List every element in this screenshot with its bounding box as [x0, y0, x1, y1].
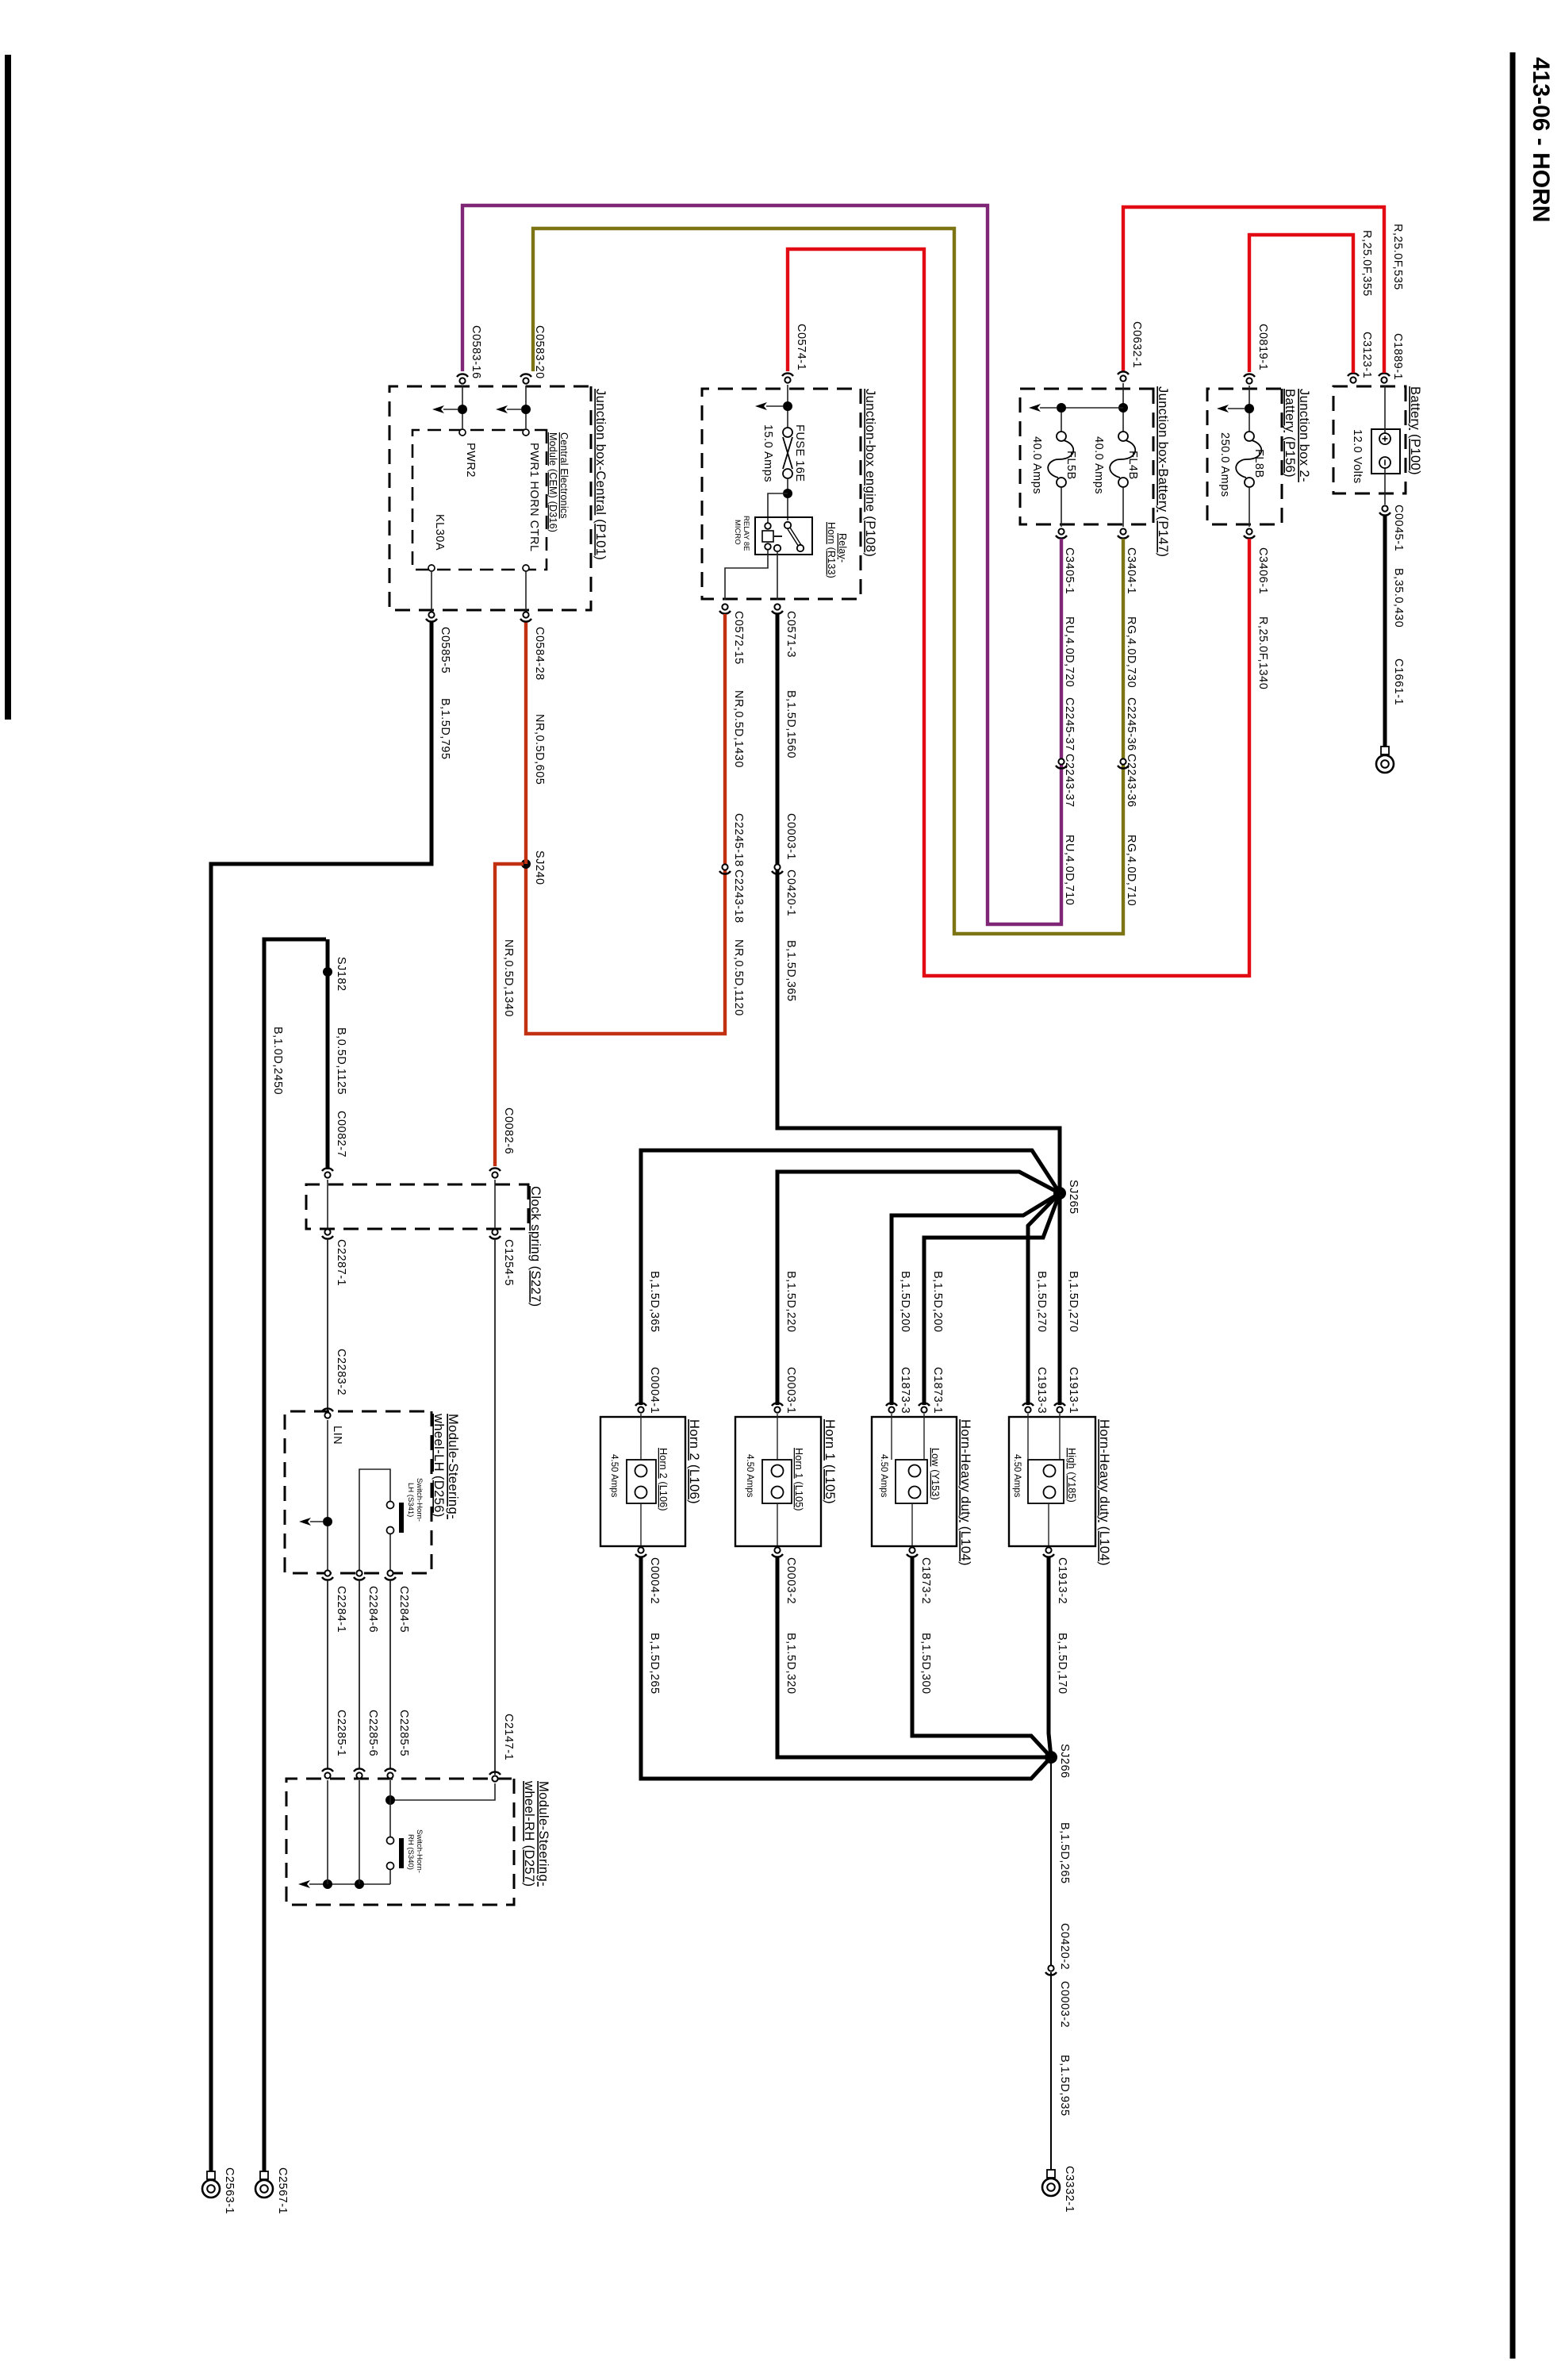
svg-text:C0585-5: C0585-5	[439, 627, 451, 674]
fuse FUSE 16E	[761, 424, 806, 520]
wire R,25.0F,1340 to relay feed	[788, 249, 1269, 976]
svg-text:Horn (R133): Horn (R133)	[826, 522, 837, 578]
connector C3405-1	[1056, 528, 1076, 594]
connector C2147-1	[489, 1714, 515, 1782]
wire B,1.5D,220 SJ265 to C0003-1	[777, 1172, 1060, 1405]
svg-text:Horn 1 (L105): Horn 1 (L105)	[793, 1448, 804, 1511]
horn 2 L106 box	[600, 1414, 701, 1546]
svg-text:C2563-1: C2563-1	[223, 2167, 236, 2214]
fusible link FL5B	[1030, 432, 1077, 527]
connector C3406-1	[1244, 528, 1269, 594]
svg-text:B,1.5D,365: B,1.5D,365	[784, 940, 797, 1002]
connector C2284-1	[322, 1570, 347, 1633]
relay coil output to C0572-15	[725, 550, 768, 600]
svg-text:C0583-16: C0583-16	[470, 325, 482, 379]
connector C1873-2	[907, 1547, 932, 1604]
wire R,25.0F,535 (battery feed A)	[1123, 207, 1404, 373]
svg-text:PWR1 HORN CTRL: PWR1 HORN CTRL	[527, 443, 540, 552]
svg-text:C3406-1: C3406-1	[1256, 547, 1269, 594]
svg-text:wheel-RH (D257): wheel-RH (D257)	[522, 1780, 536, 1887]
connector C1254-5	[489, 1229, 515, 1286]
svg-text:4.50 Amps: 4.50 Amps	[1012, 1454, 1022, 1498]
svg-text:4.50 Amps: 4.50 Amps	[879, 1454, 888, 1498]
svg-text:C0571-3: C0571-3	[784, 611, 797, 658]
svg-text:B,1.5D,270: B,1.5D,270	[1067, 1271, 1080, 1333]
svg-text:C0632-1: C0632-1	[1130, 321, 1143, 368]
svg-text:C1913-1: C1913-1	[1067, 1367, 1080, 1414]
splice SJ240	[521, 850, 546, 885]
P101 label	[593, 389, 608, 560]
PWR2 node arrow and pin	[432, 386, 477, 478]
switch-Horn-RH S340	[387, 1829, 424, 1884]
svg-text:SJ240: SJ240	[533, 850, 546, 885]
svg-text:C3405-1: C3405-1	[1063, 547, 1076, 594]
wire B,1.5D,365 SJ265 to C0004-1	[641, 1150, 1060, 1405]
svg-text:C0003-2: C0003-2	[784, 1557, 797, 1604]
svg-text:C1873-2: C1873-2	[919, 1557, 932, 1604]
wire B,1.5D,270 SJ265 to C1913-3	[1028, 1193, 1060, 1405]
D256 label	[432, 1413, 460, 1519]
svg-text:C2287-1: C2287-1	[335, 1239, 347, 1286]
svg-text:Low (Y153): Low (Y153)	[930, 1448, 941, 1500]
svg-text:4.50 Amps: 4.50 Amps	[609, 1454, 619, 1498]
svg-text:LH (S341): LH (S341)	[406, 1483, 415, 1517]
svg-text:C0003-1: C0003-1	[784, 813, 797, 860]
inline connector C2245-37 C2243-37	[1056, 697, 1076, 905]
battery value 12.0 Volts	[1351, 429, 1364, 484]
svg-text:C0584-28: C0584-28	[533, 627, 546, 681]
svg-text:C1873-3: C1873-3	[899, 1367, 911, 1414]
inline connector C2245-36 C2243-36	[1118, 697, 1137, 906]
svg-text:Junction box-Central (P101): Junction box-Central (P101)	[593, 389, 608, 560]
svg-text:FL5B: FL5B	[1064, 451, 1077, 480]
svg-text:Module-Steering-: Module-Steering-	[536, 1781, 550, 1887]
svg-text:PWR2: PWR2	[464, 443, 477, 478]
svg-text:C2245-36: C2245-36	[1125, 697, 1137, 751]
relay-Horn R133	[733, 516, 848, 578]
header rule	[1510, 52, 1516, 2359]
svg-text:B,1.5D,265: B,1.5D,265	[1058, 1822, 1071, 1884]
connector C1913-2	[1043, 1547, 1068, 1604]
PWR1 node arrow and pin	[496, 386, 540, 552]
svg-text:NR,0.5D,605: NR,0.5D,605	[533, 714, 546, 785]
connector C0082-6	[489, 1107, 515, 1178]
ground C1661-1	[1376, 658, 1405, 773]
svg-text:MICRO: MICRO	[733, 520, 742, 545]
svg-text:Switch-Horn-: Switch-Horn-	[415, 1478, 424, 1522]
connector C0003-2 horn1	[772, 1547, 797, 1604]
svg-text:B,1.5D,220: B,1.5D,220	[784, 1271, 797, 1333]
svg-text:Horn 2 (L106): Horn 2 (L106)	[687, 1419, 701, 1504]
P108 label	[863, 389, 877, 557]
wire RU,4.0D,720 purple from FL5B	[462, 205, 1076, 924]
svg-text:C2284-6: C2284-6	[366, 1586, 379, 1633]
wire C2284-5 to C2285-5	[389, 1580, 391, 1769]
svg-text:NR,0.5D,1430: NR,0.5D,1430	[732, 690, 745, 768]
connector C2285-1	[322, 1710, 347, 1779]
wire C2284-6 to C2285-6	[359, 1580, 360, 1769]
battery P100 dashed box	[1333, 386, 1406, 493]
P156 internal node and arrow	[1217, 386, 1254, 432]
connector C0632-1	[1118, 321, 1143, 382]
svg-text:C0082-6: C0082-6	[502, 1107, 515, 1154]
svg-text:Horn-Heavy duty (L104): Horn-Heavy duty (L104)	[1097, 1419, 1111, 1566]
ground C3332-1	[1042, 2166, 1076, 2213]
svg-text:FUSE 16E: FUSE 16E	[793, 424, 806, 482]
svg-text:C3404-1: C3404-1	[1125, 547, 1137, 594]
svg-text:C2245-18: C2245-18	[732, 813, 745, 867]
svg-text:C0004-1: C0004-1	[648, 1367, 661, 1414]
inline connector C0420-2 C0003-2	[1045, 1923, 1071, 2028]
inline connector C0003-1 C0420-1	[772, 813, 797, 916]
svg-text:Battery (P156): Battery (P156)	[1283, 389, 1297, 478]
wire B,1.5D,270 SJ265 to C1913-1	[1058, 1193, 1062, 1405]
relay switch output to C0571-3	[777, 551, 778, 600]
svg-text:C0583-20: C0583-20	[533, 325, 546, 379]
wire B,35.0,430 battery to ground	[1385, 516, 1405, 747]
connector C0004-2 horn2	[635, 1547, 661, 1604]
svg-text:Horn 2 (L106): Horn 2 (L106)	[658, 1448, 669, 1511]
svg-text:B,1.5D,270: B,1.5D,270	[1035, 1271, 1048, 1333]
wire NR,0.5D,605 SJ240 to CEM	[526, 622, 546, 864]
connector C2283-2	[322, 1349, 347, 1418]
connector C0004-1 horn2	[635, 1403, 646, 1412]
svg-text:RU,4.0D,720: RU,4.0D,720	[1063, 616, 1076, 687]
svg-text:C2243-18: C2243-18	[732, 869, 745, 923]
connector C0045-1	[1379, 505, 1405, 551]
junction-box engine P108 dashed box	[702, 389, 861, 599]
KL30A pin to C0585-5	[428, 514, 446, 611]
svg-text:12.0 Volts: 12.0 Volts	[1351, 429, 1364, 484]
svg-text:C1661-1: C1661-1	[1392, 658, 1405, 705]
svg-text:Junction box 2-: Junction box 2-	[1297, 389, 1311, 482]
inline connector C2245-18 C2243-18	[719, 813, 745, 923]
wire NR,0.5D,1430 relay coil to SJ240	[526, 614, 745, 1034]
wire B,1.5D,265 SJ266 output	[1051, 1757, 1071, 1965]
connector C0003-1 horn1	[772, 1403, 783, 1412]
svg-text:B,1.5D,200: B,1.5D,200	[899, 1271, 911, 1333]
svg-text:C1913-3: C1913-3	[1035, 1367, 1048, 1414]
svg-text:4.50 Amps: 4.50 Amps	[745, 1454, 754, 1498]
connector C0585-5	[426, 612, 451, 674]
svg-text:40.0 Amps: 40.0 Amps	[1030, 436, 1043, 494]
svg-text:B,1.5D,200: B,1.5D,200	[931, 1271, 944, 1333]
svg-text:FL8B: FL8B	[1252, 449, 1265, 478]
svg-text:B,1.5D,265: B,1.5D,265	[648, 1633, 661, 1695]
svg-text:C0574-1: C0574-1	[795, 324, 807, 370]
svg-text:NR,0.5D,1340: NR,0.5D,1340	[502, 939, 515, 1017]
svg-text:B,1.5D,170: B,1.5D,170	[1056, 1633, 1068, 1695]
connector C0584-28	[520, 612, 546, 680]
splice SJ266	[1045, 1744, 1071, 1779]
connector C0583-20	[520, 325, 546, 384]
wire C1254-5 to C2147-1	[494, 1239, 496, 1775]
svg-text:B,1.5D,365: B,1.5D,365	[648, 1271, 661, 1333]
wire B,1.5D,795 KL30A to ground	[211, 622, 451, 2171]
wire B,1.0D,2450 ground branch	[264, 939, 326, 2171]
svg-text:Central Electronics: Central Electronics	[558, 432, 570, 519]
connector C3404-1	[1118, 528, 1137, 594]
wire B,1.5D,935 to ground	[1051, 1972, 1071, 2170]
svg-text:Switch-Horn-: Switch-Horn-	[415, 1829, 424, 1873]
connector C2284-6	[354, 1570, 379, 1633]
wire B,1.5D,300 C1873-2 to SJ266	[912, 1557, 1051, 1757]
wire B,1.5D,200 SJ265 to C1873-1	[924, 1193, 1060, 1405]
module-Steering-wheel-LH D256 dashed box	[285, 1411, 432, 1573]
junction box 2-Battery P156 dashed box	[1207, 389, 1282, 524]
D257 ground rail with arrow	[298, 1780, 390, 1889]
svg-text:C1913-2: C1913-2	[1056, 1557, 1068, 1604]
svg-text:NR,0.5D,1120: NR,0.5D,1120	[732, 939, 745, 1016]
wire B,1.5D,320 C0003-2 to SJ266	[777, 1557, 1051, 1757]
switch-Horn-LH S341	[359, 1469, 424, 1570]
svg-text:Junction box-Battery (P147): Junction box-Battery (P147)	[1156, 386, 1170, 557]
svg-text:SJ265: SJ265	[1067, 1180, 1080, 1215]
wire RG,4.0D,730 olive from FL4B	[533, 228, 1137, 934]
P147 internal nodes and arrow	[1029, 383, 1128, 432]
svg-text:Clock spring (S227): Clock spring (S227)	[528, 1186, 543, 1307]
svg-text:R,25.0F,355: R,25.0F,355	[1360, 230, 1373, 297]
ground C2563-1	[202, 2167, 236, 2214]
connector C0583-16	[457, 325, 482, 384]
svg-text:KL30A: KL30A	[433, 514, 446, 551]
svg-text:R,25.0F,1340: R,25.0F,1340	[1256, 616, 1269, 689]
svg-text:B,35.0,430: B,35.0,430	[1392, 568, 1405, 628]
wire B,1.5D,1560 relay to SJ265	[777, 614, 1060, 1188]
P156 label	[1283, 389, 1311, 482]
svg-text:Battery (P100): Battery (P100)	[1408, 386, 1422, 475]
horn-Heavy duty L104 High Y185 box	[1009, 1414, 1111, 1566]
svg-text:C2285-1: C2285-1	[335, 1710, 347, 1756]
battery P100 label	[1408, 386, 1422, 475]
svg-text:Horn 1 (L105): Horn 1 (L105)	[823, 1419, 837, 1504]
svg-text:C0045-1: C0045-1	[1392, 505, 1405, 551]
module-Steering-wheel-RH D257 dashed box	[286, 1779, 514, 1905]
HORN CTRL pin to C0584-28	[523, 565, 529, 611]
connector C1913-1	[1054, 1403, 1065, 1412]
connector C3123-1	[1348, 332, 1373, 383]
svg-text:C2243-36: C2243-36	[1125, 754, 1137, 808]
svg-text:B,1.5D,795: B,1.5D,795	[439, 698, 451, 760]
P108 internal node and arrow	[755, 385, 792, 428]
svg-text:C1873-1: C1873-1	[931, 1367, 944, 1414]
svg-text:C0004-2: C0004-2	[648, 1557, 661, 1604]
svg-text:C0003-1: C0003-1	[784, 1367, 797, 1414]
connector C1873-1	[919, 1403, 930, 1412]
wire B,1.5D,170 C1913-2 to SJ266	[1049, 1557, 1068, 1757]
wire B,1.5D,200 SJ265 to C1873-3	[892, 1193, 1060, 1405]
svg-text:Module-Steering-: Module-Steering-	[446, 1414, 460, 1519]
svg-text:C1889-1: C1889-1	[1391, 333, 1404, 380]
connector C1873-3	[886, 1403, 897, 1412]
svg-text:C1254-5: C1254-5	[502, 1239, 515, 1286]
svg-text:C2243-37: C2243-37	[1063, 754, 1076, 808]
svg-text:15.0 Amps: 15.0 Amps	[761, 424, 774, 482]
svg-text:SJ182: SJ182	[335, 957, 347, 992]
ground C2567-1	[255, 2167, 289, 2214]
connector C0819-1	[1244, 324, 1269, 384]
svg-text:C2245-37: C2245-37	[1063, 697, 1076, 751]
svg-text:RELAY 8E: RELAY 8E	[742, 516, 750, 551]
svg-text:LIN: LIN	[331, 1426, 343, 1445]
junction box-Battery P147 dashed box	[1020, 389, 1153, 524]
clock spring internal wires	[328, 1180, 495, 1228]
svg-text:C2284-5: C2284-5	[397, 1586, 410, 1633]
connector C2285-5	[385, 1710, 410, 1779]
horn-Heavy duty L104 Low Y153 box	[872, 1414, 972, 1566]
svg-text:SJ266: SJ266	[1058, 1744, 1071, 1779]
connector C0082-7	[322, 1111, 347, 1178]
svg-text:40.0 Amps: 40.0 Amps	[1092, 436, 1105, 494]
connector C2285-6	[354, 1710, 379, 1779]
page title 413-06 - HORN	[1528, 57, 1554, 222]
svg-text:RU,4.0D,710: RU,4.0D,710	[1063, 835, 1076, 905]
svg-text:C2284-1: C2284-1	[335, 1586, 347, 1633]
svg-text:Relay-: Relay-	[837, 533, 848, 562]
CEM label	[547, 432, 570, 532]
svg-text:C0572-15: C0572-15	[732, 611, 745, 665]
svg-text:B,1.0D,2450: B,1.0D,2450	[271, 1027, 284, 1095]
svg-text:C3123-1: C3123-1	[1360, 332, 1373, 378]
svg-text:Module (CEM) (D316): Module (CEM) (D316)	[547, 432, 558, 532]
connector C0574-1	[782, 324, 807, 383]
clock spring label	[528, 1186, 543, 1307]
svg-text:C2283-2: C2283-2	[335, 1349, 347, 1395]
footer bar	[5, 55, 11, 720]
wire C2284-1 to C2285-1	[327, 1580, 328, 1769]
wire C2287-1 to C2283-2	[327, 1239, 328, 1411]
svg-text:Horn-Heavy duty (L104): Horn-Heavy duty (L104)	[958, 1419, 972, 1566]
connector C1913-3	[1022, 1403, 1034, 1412]
connector C2284-5	[385, 1570, 410, 1633]
svg-text:FL4B: FL4B	[1126, 451, 1139, 480]
clock spring S227 dashed box	[306, 1184, 528, 1229]
svg-text:High (Y185): High (Y185)	[1066, 1448, 1077, 1503]
svg-text:B,0.5D,1125: B,0.5D,1125	[335, 1027, 347, 1095]
fusible link FL8B	[1218, 432, 1265, 527]
battery symbol B1	[1371, 386, 1400, 505]
svg-text:C0420-2: C0420-2	[1058, 1923, 1071, 1970]
svg-text:B,1.5D,1560: B,1.5D,1560	[784, 690, 797, 758]
D257 internal C2147 branch	[385, 1780, 495, 1837]
fusible link FL4B	[1092, 432, 1139, 527]
central electronics module CEM D316 dashed box	[412, 430, 547, 570]
svg-text:C0003-2: C0003-2	[1058, 1981, 1071, 2028]
relay feed node	[768, 489, 792, 524]
wire R,25.0F,355 (battery feed B)	[1249, 230, 1373, 373]
svg-text:R,25.0F,535: R,25.0F,535	[1391, 224, 1404, 290]
wire B,1.5D,265 C0004-2 to SJ266	[641, 1557, 1051, 1779]
svg-text:RG,4.0D,730: RG,4.0D,730	[1125, 616, 1137, 688]
junction box-Central P101 dashed box	[389, 386, 591, 610]
svg-text:C2285-5: C2285-5	[397, 1710, 410, 1756]
svg-text:C0420-1: C0420-1	[784, 869, 797, 916]
svg-text:wheel-LH (D256): wheel-LH (D256)	[432, 1413, 446, 1518]
splice SJ265	[1053, 1180, 1080, 1215]
svg-text:B,1.5D,300: B,1.5D,300	[919, 1633, 932, 1695]
connector C2287-1	[322, 1229, 347, 1286]
horn feed labels top row	[648, 1271, 1080, 1414]
LIN wire node and arrow in D256	[299, 1420, 343, 1570]
horn 1 L105 box	[735, 1414, 837, 1546]
D257 label	[522, 1780, 550, 1887]
svg-text:250.0 Amps: 250.0 Amps	[1218, 432, 1231, 497]
svg-text:413-06 - HORN: 413-06 - HORN	[1528, 57, 1554, 222]
P147 label	[1156, 386, 1170, 557]
wire NR,0.5D,1340 SJ240 to clock spring	[495, 864, 524, 1166]
svg-text:C0819-1: C0819-1	[1256, 324, 1269, 370]
svg-text:RH (S340): RH (S340)	[406, 1834, 415, 1870]
svg-text:C2285-6: C2285-6	[366, 1710, 379, 1756]
svg-text:Junction-box engine (P108): Junction-box engine (P108)	[863, 389, 877, 557]
svg-text:RG,4.0D,710: RG,4.0D,710	[1125, 835, 1137, 906]
connector C1889-1	[1379, 333, 1404, 383]
svg-text:C2147-1: C2147-1	[502, 1714, 515, 1760]
splice SJ182 and wire B,0.5D,1125 to clock spring	[323, 939, 347, 1169]
svg-text:C2567-1: C2567-1	[276, 2167, 289, 2214]
connector C0571-3	[772, 604, 797, 658]
svg-text:B,1.5D,935: B,1.5D,935	[1058, 2055, 1071, 2117]
svg-text:C0082-7: C0082-7	[335, 1111, 347, 1157]
svg-text:C3332-1: C3332-1	[1063, 2166, 1076, 2213]
svg-text:B,1.5D,320: B,1.5D,320	[784, 1633, 797, 1695]
connector C0572-15	[719, 604, 745, 664]
